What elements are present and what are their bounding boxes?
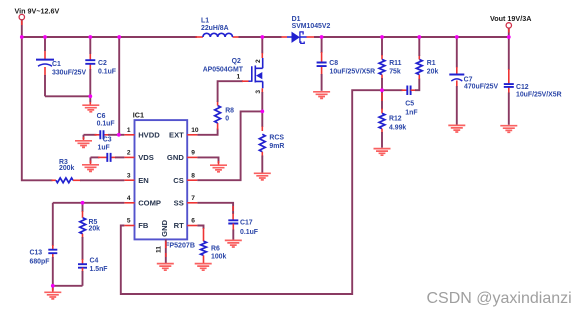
svg-text:C6: C6	[97, 113, 106, 120]
svg-text:20k: 20k	[427, 68, 439, 75]
wire R11 to FB node	[381, 75, 383, 91]
svg-text:C17: C17	[240, 220, 253, 227]
node COMP junction	[81, 201, 85, 205]
svg-text:2: 2	[127, 150, 131, 157]
svg-text:R8: R8	[225, 108, 234, 115]
pin 2 VDS	[124, 150, 153, 163]
svg-text:CS: CS	[173, 176, 184, 185]
wire FB node to C5	[382, 89, 407, 91]
svg-text:R11: R11	[389, 60, 401, 67]
capacitor C12	[504, 84, 562, 99]
svg-text:0.1uF: 0.1uF	[97, 121, 115, 128]
svg-text:C3: C3	[103, 137, 112, 144]
ground C12	[500, 126, 517, 133]
wire GND pin line	[197, 157, 218, 164]
pin 7 SS	[174, 195, 198, 208]
wire COMP line	[53, 202, 125, 204]
wire comp ground bus	[53, 285, 83, 287]
svg-text:11: 11	[155, 246, 162, 253]
node C3 feed junction	[117, 35, 121, 39]
svg-text:75k: 75k	[389, 68, 401, 75]
svg-text:C8: C8	[329, 60, 338, 67]
wire R8 to gate	[218, 81, 243, 105]
wire rail L1 to D1	[233, 36, 288, 38]
svg-text:GND: GND	[160, 219, 169, 236]
capacitor C2	[85, 60, 116, 76]
svg-text:R12: R12	[389, 116, 402, 123]
resistor RCS	[259, 134, 284, 152]
transistor Q2	[203, 58, 263, 94]
svg-text:1nF: 1nF	[405, 109, 417, 116]
svg-text:1uF: 1uF	[98, 144, 110, 151]
wire RCS to ground	[261, 152, 263, 173]
svg-text:200k: 200k	[59, 165, 74, 172]
svg-text:C5: C5	[405, 100, 414, 107]
pin 5 FB	[124, 218, 148, 231]
pin 9 GND	[167, 150, 197, 163]
svg-text:1: 1	[127, 127, 131, 134]
svg-text:C12: C12	[516, 84, 529, 91]
svg-text:FB: FB	[138, 221, 149, 230]
diode D1	[287, 16, 330, 44]
node C2 junction	[88, 35, 92, 39]
ground input caps	[82, 96, 99, 112]
node CS junction	[260, 110, 264, 114]
svg-text:RT: RT	[174, 221, 184, 230]
capacitor C5	[405, 85, 417, 116]
capacitor C17	[228, 220, 258, 236]
wire EXT to R8	[197, 123, 217, 135]
svg-text:470uF/25V: 470uF/25V	[464, 84, 498, 91]
svg-text:C4: C4	[90, 258, 99, 265]
wire input rail	[22, 36, 203, 38]
capacitor C1	[36, 60, 86, 77]
resistor R5	[80, 218, 100, 234]
pin 1 HVDD	[124, 127, 160, 140]
pin 3 EN	[124, 172, 148, 185]
svg-text:Q2: Q2	[232, 58, 241, 65]
port Vin	[15, 6, 60, 37]
node R11 junction	[380, 35, 384, 39]
svg-text:D1: D1	[292, 16, 301, 23]
wire rail D1 to Vout	[306, 36, 509, 38]
svg-text:FP5207B: FP5207B	[165, 241, 195, 249]
svg-text:L1: L1	[201, 18, 209, 25]
node R1 junction	[417, 35, 421, 39]
port Vout	[490, 14, 531, 37]
capacitor C8	[317, 60, 376, 76]
node comp ground junction	[51, 284, 55, 288]
svg-text:GND: GND	[167, 153, 184, 162]
svg-text:100k: 100k	[211, 254, 226, 261]
wire R5 to C4	[82, 234, 84, 264]
wire C17 to ground	[232, 224, 234, 241]
ground pin9	[210, 165, 227, 172]
svg-text:EN: EN	[138, 176, 149, 185]
resistor R6	[201, 241, 227, 260]
svg-text:HVDD: HVDD	[138, 131, 160, 140]
svg-text:R6: R6	[211, 246, 220, 253]
svg-text:Vin 9V~12.6V: Vin 9V~12.6V	[15, 6, 60, 15]
node HVDD junction	[117, 133, 121, 137]
resistor R1	[416, 59, 438, 75]
ground C7	[448, 125, 465, 132]
svg-text:IC1: IC1	[133, 111, 144, 120]
svg-text:330uF/25V: 330uF/25V	[52, 70, 86, 77]
ground C17	[225, 240, 242, 247]
wire C12 branch	[508, 37, 510, 125]
svg-text:7: 7	[191, 195, 195, 202]
svg-text:3: 3	[255, 90, 262, 94]
watermark	[427, 290, 572, 307]
resistor R8	[215, 106, 234, 124]
svg-text:0: 0	[225, 116, 229, 123]
ground compensation	[44, 286, 61, 299]
svg-text:AP0504GMT: AP0504GMT	[203, 66, 244, 73]
svg-text:20k: 20k	[89, 225, 101, 232]
wire FB node to R12	[381, 90, 383, 113]
wire Vin to R3	[22, 37, 56, 180]
svg-text:SS: SS	[174, 199, 184, 208]
resistor R3	[56, 159, 74, 183]
svg-text:COMP: COMP	[138, 199, 161, 208]
resistor R12	[379, 113, 406, 131]
wire C8 branch	[321, 37, 323, 91]
wire Q2 drain	[261, 37, 263, 58]
pin 11 GND	[155, 219, 169, 263]
pin 6 RT	[174, 218, 198, 231]
wire C5 to R1	[411, 75, 420, 91]
wire R12 to ground	[381, 129, 383, 148]
capacitor C4	[78, 258, 108, 274]
resistor R11	[379, 59, 402, 75]
wire C2 branch	[89, 37, 91, 96]
svg-text:10uF/25V/X5R: 10uF/25V/X5R	[516, 92, 562, 99]
pin 8 CS	[173, 172, 197, 185]
wire R6 to ground	[203, 255, 205, 263]
wire RT line	[197, 226, 203, 242]
svg-text:9: 9	[191, 150, 195, 157]
ground C6	[75, 135, 92, 148]
node C7 junction	[455, 35, 459, 39]
node C2 ground junction	[88, 94, 92, 98]
wire Q2 source	[261, 88, 263, 111]
wire C1 C2 ground bus	[45, 95, 90, 97]
svg-text:1: 1	[237, 73, 241, 80]
wire CS to RCS	[261, 111, 263, 131]
op-amp U1 IC1 FP5207B body	[133, 111, 195, 250]
svg-text:10uF/25V/X5R: 10uF/25V/X5R	[330, 68, 376, 75]
svg-text:22uH/8A: 22uH/8A	[201, 25, 229, 32]
wire R1 top	[418, 37, 420, 59]
capacitor C7	[449, 75, 498, 91]
wire Vin to HVDD	[118, 37, 120, 135]
capacitor C13	[30, 249, 58, 265]
svg-text:5: 5	[127, 218, 131, 225]
svg-text:0.1uF: 0.1uF	[240, 229, 258, 236]
capacitor C6	[97, 113, 115, 139]
node C12 junction	[507, 35, 511, 39]
wire R3 to EN	[73, 179, 124, 181]
svg-text:C2: C2	[98, 60, 107, 67]
capacitor C3	[98, 137, 112, 162]
wire C4 to ground bus	[82, 268, 84, 286]
wire FB route	[121, 90, 382, 294]
pin 4 COMP	[124, 195, 161, 208]
svg-text:8: 8	[191, 172, 195, 179]
wire C1 branch	[44, 37, 46, 96]
svg-text:10: 10	[191, 127, 199, 134]
wire C7 branch	[456, 37, 458, 125]
svg-text:4.99k: 4.99k	[389, 125, 406, 132]
ground C3	[82, 157, 99, 171]
svg-text:R1: R1	[427, 60, 436, 67]
wire HVDD line	[84, 134, 125, 136]
wire C13 branch	[52, 203, 54, 286]
svg-text:RCS: RCS	[269, 135, 284, 142]
svg-text:3: 3	[127, 172, 131, 179]
node Vin junction	[20, 35, 24, 39]
svg-text:SVM1045V2: SVM1045V2	[292, 23, 331, 30]
node C1 junction	[43, 35, 47, 39]
svg-text:2: 2	[255, 59, 262, 63]
wire VDS line	[91, 156, 125, 158]
inductor L1	[201, 18, 232, 38]
pin 10 EXT	[169, 127, 199, 140]
node Q2 rail junction	[260, 35, 264, 39]
wire SS line	[197, 203, 233, 220]
ground pin11	[157, 264, 174, 271]
wire R11 top	[381, 37, 383, 59]
ground C8	[313, 92, 330, 99]
ground R6	[195, 264, 212, 271]
wire CS line	[197, 111, 262, 180]
svg-text:VDS: VDS	[138, 153, 154, 162]
node C8 junction	[320, 35, 324, 39]
svg-text:CSDN @yaxindianzi: CSDN @yaxindianzi	[427, 290, 572, 307]
svg-text:1.5nF: 1.5nF	[90, 266, 108, 273]
svg-text:C13: C13	[30, 249, 43, 256]
ground R12	[374, 149, 391, 156]
wire R5 branch	[82, 203, 84, 218]
svg-text:EXT: EXT	[169, 131, 184, 140]
svg-text:4: 4	[127, 195, 131, 202]
svg-text:680pF: 680pF	[30, 259, 50, 266]
svg-text:Vout 19V/3A: Vout 19V/3A	[490, 14, 531, 23]
node FB divider junction	[380, 88, 384, 92]
ground RCS	[254, 173, 271, 180]
svg-text:0.1uF: 0.1uF	[98, 69, 116, 76]
svg-text:6: 6	[191, 218, 195, 225]
svg-text:9mR: 9mR	[269, 143, 284, 150]
svg-text:C1: C1	[52, 61, 61, 68]
